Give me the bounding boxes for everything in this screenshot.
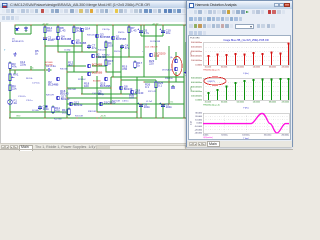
wire vertical pre q11 [175,72,177,82]
label red note 1 [145,47,158,49]
svg-text:BC546B: BC546B [61,37,72,41]
junction bottom rail x8 [9,117,11,119]
junction node 95 30 [96,51,98,53]
svg-text:20.000k: 20.000k [205,67,211,69]
label R21 [78,79,86,81]
svg-text:C17 10u: C17 10u [32,83,40,85]
junction node 80 72 [81,93,83,95]
capacitor C1 (input coupling) [46,64,56,72]
label R10 [98,50,106,52]
svg-text:4A: 4A [14,101,18,105]
label R20 [68,89,76,91]
svg-text:BC556B: BC556B [45,65,53,67]
svg-text:U(Rprobe): U(Rprobe) [203,136,213,139]
transistor Q6 [87,63,103,68]
junction node 43 90 [44,111,46,113]
svg-text:RV1: RV1 [13,73,19,77]
capacitor C6 [138,29,150,35]
junction node 142 60 [143,81,145,83]
svg-text:BC546B: BC546B [100,84,111,88]
transistor Q12 [69,101,83,108]
wire h 58 [121,79,156,81]
svg-text:470: 470 [55,109,60,113]
wire vertical pre q10 [175,52,177,59]
label R34 [118,32,124,34]
pane 3 x-axis labels [203,135,289,137]
wire far right stub [185,42,187,70]
junction node 43 24 [44,45,46,47]
label R26 [145,83,151,90]
svg-text:level 1 BD139: level 1 BD139 [145,47,158,49]
junction top rail x111 [112,24,114,26]
main window title bar [0,0,293,8]
pane 2 frame (THD dc) [203,78,289,100]
wire vertical out upper [168,46,170,82]
svg-text:C16 22p: C16 22p [102,29,110,31]
resistor R17 [134,61,143,70]
label net V- [100,116,107,118]
svg-text:Q14: Q14 [85,27,91,31]
label C5 [64,50,71,52]
wire h 76 [67,97,137,99]
main toolbar row 2 (zoom tools) [0,15,187,22]
transistor Q8 [119,85,133,92]
transistor Q4 [56,35,72,42]
wire vertical C8 [140,104,142,118]
wire vertical driver low [110,77,112,104]
annotation ellipse (grapher) [204,77,226,85]
status bar [0,149,293,150]
junction node 72 24 [73,45,75,47]
svg-text:22k: 22k [12,87,17,91]
wire bottom rail [9,117,186,119]
wire vertical right 1 [143,25,145,77]
svg-text:100n: 100n [166,105,173,109]
label Q2 label [48,80,59,87]
grapher page tabs [187,141,292,147]
svg-text:R35 330: R35 330 [60,69,68,71]
svg-text:BC546B: BC546B [48,83,59,87]
svg-text:100.0000m: 100.0000m [191,60,202,62]
junction top rail x161 [162,24,164,26]
capacitor C3 [38,105,49,112]
svg-text:0.0017%: 0.0017% [208,81,216,83]
svg-text:220.000k: 220.000k [282,67,289,69]
wire vertical right 2b [155,80,157,118]
resistor R11 [52,106,61,115]
svg-text:150.000u: 150.000u [264,135,272,137]
svg-text:0.45: 0.45 [154,54,160,58]
svg-text:0.1: 0.1 [145,85,149,89]
label R28 [46,95,54,97]
junction node 161 82 [162,103,164,105]
resistor R7 [128,26,137,35]
svg-text:Qb: Qb [170,57,173,59]
svg-text:R27 10R: R27 10R [112,101,120,103]
svg-text:20.000k: 20.000k [205,102,211,104]
svg-text:THD(V(out))_p_%: THD(V(out))_p_% [203,69,220,72]
svg-text:T (ms): T (ms) [243,138,249,139]
capacitor C7 [87,44,97,51]
pane 3 y-axis labels [195,113,203,135]
svg-text:U (V): U (V) [191,121,193,126]
label L1 [146,101,153,103]
svg-text:300.0000m: 300.0000m [191,87,202,89]
svg-text:100.000k: 100.000k [236,102,243,104]
label R33 [87,35,95,37]
label C14 [92,93,102,95]
wire vertical input pair [73,44,75,72]
wire vertical out lower [168,82,170,104]
transistor Q3 [95,33,111,40]
grapher window title bar [187,1,292,9]
svg-text:R20 56R: R20 56R [68,89,76,91]
junction top rail x139 [140,24,142,26]
junction node 111 55 [112,76,114,78]
junction bottom rail x161 [162,117,164,119]
svg-text:C18 1n: C18 1n [122,101,128,103]
resistor R25 [155,81,164,90]
junction bottom rail x99 [100,117,102,119]
svg-text:500.0000m: 500.0000m [191,42,202,44]
wire vertical Q4 emitter [57,40,59,52]
wire vertical mid-left [66,52,68,118]
svg-text:400.0000m: 400.0000m [191,47,202,49]
label Q16 [60,89,69,96]
svg-text:R32 4k7: R32 4k7 [52,39,60,41]
svg-text:30.000: 30.000 [195,113,202,115]
wire h 72 [81,93,137,95]
wire h 44a [67,65,86,67]
svg-text:In: In [32,67,34,69]
magenta sine trace [203,113,289,133]
svg-text:R22 6k8: R22 6k8 [54,119,62,121]
junction node 135 90 [136,111,138,113]
current source F1 [8,99,18,106]
transistor Q18 [130,89,144,96]
svg-text:Image Blue-HB_(1x+5x5_256k)-PC: Image Blue-HB_(1x+5x5_256k)-PCB OR [223,39,269,42]
svg-text:100.0000m: 100.0000m [191,95,202,97]
wire top rail [15,24,186,26]
potentiometer RV1 [9,73,19,81]
svg-text:T: T [4,49,6,52]
transistor Q1 [111,35,127,42]
svg-text:0.0000: 0.0000 [195,100,202,102]
label R12 [68,61,74,68]
transistor Q2b [56,77,60,81]
transistor Q5 [71,39,87,46]
junction node 29 48 [30,69,32,71]
label net V+2 [152,23,159,25]
green THD stem trace [208,78,290,100]
pane 1 frame (THD %) [203,43,289,66]
schematic canvas [0,22,187,143]
label D2 label [32,110,40,112]
ground symbol (input) [13,52,16,56]
junction node 65 66 [66,87,68,89]
svg-text:180.000k: 180.000k [269,102,276,104]
wire vertical Q4 stub [57,25,59,36]
resistor R13 [62,108,70,117]
junction node 135 76 [136,97,138,99]
junction top rail x56 [57,24,59,26]
svg-text:500.0000m: 500.0000m [191,78,202,80]
wire vertical Q1 [112,25,114,77]
wire h feedback 24 [45,45,82,47]
label C12 [20,60,27,67]
label R24 [114,51,120,53]
junction node 43 16 [44,37,46,39]
junction node 43 48 [44,69,46,71]
svg-text:100n: 100n [144,105,151,109]
label D5 value [12,39,25,44]
junction node 95 44 [96,65,98,67]
resistor R15 [105,59,114,68]
svg-text:R38 10R: R38 10R [88,111,96,113]
svg-text:C14 100p: C14 100p [92,93,102,95]
wire bias loop right [30,25,32,34]
wire vertical mirror [81,30,83,52]
label net Out [170,100,174,103]
label R19 [122,65,128,72]
junction node 167 60 [168,81,170,83]
label C18 [122,101,128,103]
junction bottom rail x182 [183,117,185,119]
zener diode D5 [15,27,20,31]
pane 3 frame (transient) [203,113,289,133]
wire h 44b [92,65,106,67]
svg-text:R31 10R: R31 10R [75,116,83,118]
svg-text:50.000u: 50.000u [221,135,228,137]
capacitor C8 [138,103,151,110]
svg-text:C15 1u: C15 1u [26,100,32,102]
wire h cap tops [141,35,163,37]
junction top rail x127 [128,24,130,26]
junction top rail x95 [96,24,98,26]
label R5 [35,49,39,56]
capacitor C9 [160,103,173,110]
junction top rail x72 [73,24,75,26]
svg-text:100: 100 [108,44,113,48]
svg-text:BC556B: BC556B [116,37,127,41]
svg-text:20.000: 20.000 [195,116,202,118]
pane 2 x-axis labels [205,102,289,104]
svg-text:1.43: 1.43 [60,29,66,33]
wire input wire [9,69,45,71]
label R6 [26,78,32,80]
junction node 13 48 [14,69,16,71]
svg-text:200.000u: 200.000u [282,135,290,137]
wire h 60 [144,81,184,83]
label R30 [129,93,135,100]
svg-text:D8 1N4148: D8 1N4148 [162,70,173,72]
resistor R16 [73,26,82,35]
svg-text:BC546B: BC546B [93,81,101,83]
junction node 139 82 [140,103,142,105]
svg-text:60.000k: 60.000k [221,102,227,104]
svg-text:F (Hz): F (Hz) [243,73,249,75]
junction top rail x29 [30,24,32,26]
label R27 [112,101,120,103]
svg-text:0.0000: 0.0000 [195,65,202,67]
svg-text:200.0000m: 200.0000m [191,56,202,58]
svg-text:140.000k: 140.000k [253,67,260,69]
capacitor C11 [171,85,175,88]
svg-text:0.22: 0.22 [62,111,68,115]
label C13 [18,96,26,98]
grapher client / plots [188,35,291,140]
svg-text:140.000k: 140.000k [253,102,260,104]
svg-text:BD139: BD139 [74,103,83,107]
junction top rail x13 [14,24,16,26]
label R32 [52,39,60,41]
label Q15 label [100,82,111,89]
junction node 119 72 [120,93,122,95]
resistor R14 [44,26,53,35]
transistor Q9 [149,52,166,59]
svg-text:D2 LED: D2 LED [32,110,40,112]
label C16 [102,29,110,31]
capacitor C4 [120,44,130,51]
svg-text:4.7u: 4.7u [144,31,150,35]
wire h 55 [111,76,184,78]
junction node 109 82 [110,103,112,105]
svg-text:R36 2k2: R36 2k2 [102,55,110,57]
LED D2 [45,105,47,107]
junction node 80 30 [81,51,83,53]
junction node 95 90 [96,111,98,113]
junction top rail x182 [183,24,185,26]
capacitor C2 [43,36,54,43]
pane 1 y-axis labels [191,42,203,66]
wire vertical vas low [81,76,83,94]
wire h 35 [97,56,144,58]
wire vertical center lower [96,76,98,112]
wire h 90 left [10,111,67,113]
svg-text:47u: 47u [125,46,130,50]
junction bottom rail x154 [155,117,157,119]
svg-text:C13 47u: C13 47u [18,96,26,98]
transistor Q7 [87,71,103,76]
label C5b [98,90,105,97]
transistor Q15 [104,77,108,81]
svg-text:100.000k: 100.000k [236,67,243,69]
junction node 95 35 [96,56,98,58]
svg-text:C5 68p: C5 68p [64,50,71,52]
wire bias loop bottom [15,33,31,35]
junction node 127 35 [128,56,130,58]
svg-text:100n: 100n [43,107,50,111]
main toolbar row 1 [0,8,293,15]
transistor Q13 [99,101,116,106]
svg-text:47k: 47k [12,65,17,69]
grapher toolbar rows [187,9,292,16]
transistor Q10 [174,59,178,63]
label net V+ [42,23,49,25]
label D8 [162,70,173,72]
junction node 109 66 [110,87,112,89]
svg-text:R6 10k: R6 10k [26,78,32,80]
wire h 82 [67,103,184,105]
wire vertical C6 [140,25,142,36]
pane 1 x-axis labels [205,67,289,69]
junction bottom rail x65 [66,117,68,119]
svg-text:220.000k: 220.000k [282,102,289,104]
wire left input column [9,70,11,118]
junction node 65 76 [66,97,68,99]
svg-text:F (Hz): F (Hz) [243,108,249,110]
wire vertical B1 [44,25,46,118]
wire vertical R16 [73,25,75,40]
junction node 119 58 [120,79,122,81]
svg-text:THD(V(out))_p_dc: THD(V(out))_p_dc [203,104,220,107]
svg-text:47u: 47u [92,46,97,50]
svg-text:U (%): U (%) [191,51,193,56]
svg-text:PCB OR0: PCB OR0 [190,38,200,40]
svg-text:-10.000: -10.000 [195,126,203,128]
label R37 [148,91,157,93]
svg-text:R33 220: R33 220 [87,35,95,37]
svg-text:D9 1N4148: D9 1N4148 [150,41,161,43]
svg-text:10.000: 10.000 [195,119,202,121]
transistor Q2 [91,53,107,60]
wire bias loop left [14,25,16,34]
junction node 72 44 [73,65,75,67]
svg-text:47R: 47R [122,67,127,71]
svg-text:R21 1k2: R21 1k2 [78,79,86,81]
svg-text:L1 2u2: L1 2u2 [146,101,153,103]
junction bottom rail x139 [140,117,142,119]
resistor R3 [9,62,17,71]
label C15 [26,100,32,102]
svg-text:R24 1k: R24 1k [114,51,120,53]
svg-text:100: 100 [84,84,89,88]
svg-text:0.1: 0.1 [158,84,162,88]
svg-text:1.43: 1.43 [131,29,137,33]
wire right rail [183,25,185,118]
svg-text:BC546B: BC546B [76,41,87,45]
label R22 [54,119,62,121]
label D9 [150,41,161,43]
svg-text:BD140: BD140 [61,97,70,101]
wire stub in2 [30,66,32,70]
wire vertical right 2a [155,25,157,60]
svg-text:BZX85-B7V5: BZX85-B7V5 [12,41,25,43]
label C17 [32,83,40,85]
svg-text:10R: 10R [129,96,134,100]
wire h 30 [58,51,97,53]
svg-text:Out: Out [170,100,174,103]
wire vertical center upper [96,25,98,72]
junction node 8 90 [9,111,11,113]
red THD stem trace [208,43,290,65]
junction top rail x142 [143,24,145,26]
pane 2 y-axis labels [191,78,203,102]
svg-text:-20.000: -20.000 [195,129,203,131]
label Qb tag [170,57,173,59]
label net GND [16,116,21,118]
junction bottom rail x75 [76,117,78,119]
junction node 167 82 [168,103,170,105]
svg-text:BC556B: BC556B [100,35,111,39]
junction bottom rail x135 [136,117,138,119]
svg-text:0.000: 0.000 [197,123,203,125]
svg-text:400.0000m: 400.0000m [191,82,202,84]
label R35 [60,69,68,71]
svg-text:220: 220 [149,62,154,66]
svg-text:60.000k: 60.000k [221,67,227,69]
svg-text:R10 220: R10 220 [98,50,106,52]
